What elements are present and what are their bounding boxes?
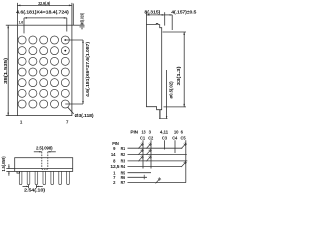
- svg-text:2.54(.10): 2.54(.10): [24, 188, 46, 193]
- svg-text:4.6(.181)X6=27.6(1.087): 4.6(.181)X6=27.6(1.087): [85, 41, 90, 97]
- svg-text:4(.157)±0.5: 4(.157)±0.5: [171, 9, 197, 14]
- svg-text:R2: R2: [121, 152, 126, 157]
- svg-text:14: 14: [111, 152, 116, 157]
- svg-text:33(1.3): 33(1.3): [176, 66, 181, 86]
- svg-text:12,5: 12,5: [110, 164, 120, 169]
- svg-text:8(.315): 8(.315): [144, 9, 160, 14]
- svg-text:C2: C2: [148, 135, 154, 140]
- svg-text:13: 13: [142, 130, 147, 135]
- svg-text:R4: R4: [121, 164, 126, 169]
- svg-text:C3: C3: [162, 135, 168, 140]
- svg-text:C1: C1: [140, 135, 146, 140]
- svg-text:4.6(.181)X4=18.4(.724): 4.6(.181)X4=18.4(.724): [16, 10, 69, 15]
- svg-text:Ø3(.118): Ø3(.118): [75, 113, 95, 118]
- svg-text:PIN: PIN: [130, 130, 138, 135]
- svg-text:R3: R3: [121, 159, 126, 164]
- svg-text:0.5(.019): 0.5(.019): [80, 12, 85, 25]
- svg-text:10: 10: [174, 130, 179, 135]
- svg-text:C4: C4: [172, 135, 178, 140]
- svg-text:ø0.5(.02): ø0.5(.02): [168, 81, 173, 99]
- svg-text:C5: C5: [181, 135, 187, 140]
- svg-text:R6: R6: [121, 175, 126, 180]
- svg-text:4,11: 4,11: [160, 130, 169, 135]
- svg-text:2.5(.098): 2.5(.098): [36, 145, 53, 150]
- svg-text:R1: R1: [121, 146, 126, 151]
- svg-text:1.5(.059): 1.5(.059): [1, 156, 6, 172]
- svg-text:R7: R7: [121, 180, 126, 185]
- svg-text:1.6: 1.6: [19, 21, 24, 25]
- svg-text:38(1.535): 38(1.535): [3, 57, 8, 84]
